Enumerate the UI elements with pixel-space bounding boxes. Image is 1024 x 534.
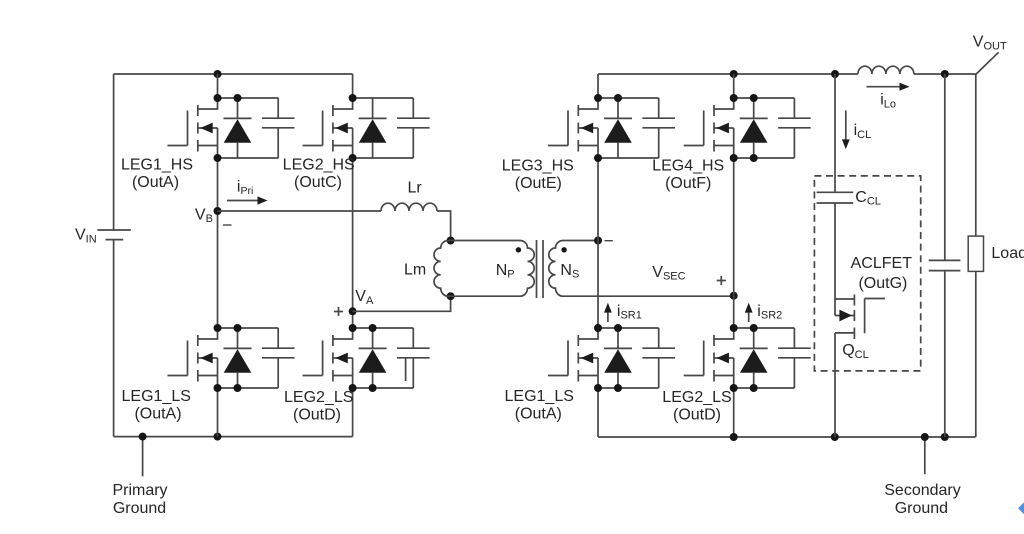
svg-text:LEG3_HS: LEG3_HS	[502, 157, 574, 174]
svg-text:Lr: Lr	[408, 180, 423, 197]
svg-text:LEG4_HS: LEG4_HS	[652, 157, 724, 174]
svg-text:Primary: Primary	[112, 482, 167, 499]
svg-text:(OutA): (OutA)	[132, 174, 179, 191]
svg-text:(OutD): (OutD)	[293, 407, 341, 424]
svg-text:LEG1_LS: LEG1_LS	[122, 388, 191, 405]
svg-text:VIN: VIN	[75, 227, 97, 246]
svg-text:NP: NP	[496, 262, 515, 281]
svg-text:iCL: iCL	[854, 122, 872, 141]
svg-text:LEG2_LS: LEG2_LS	[284, 389, 353, 406]
svg-text:NS: NS	[560, 262, 579, 281]
svg-text:iPri: iPri	[237, 178, 253, 197]
svg-text:(OutF): (OutF)	[665, 175, 711, 192]
svg-text:(OutD): (OutD)	[673, 407, 721, 424]
svg-text:ACLFET: ACLFET	[851, 255, 913, 272]
svg-text:(OutA): (OutA)	[515, 406, 562, 423]
svg-text:LEG2_LS: LEG2_LS	[662, 389, 731, 406]
svg-text:VB: VB	[195, 206, 213, 225]
svg-text:(OutC): (OutC)	[294, 174, 342, 191]
svg-text:Secondary: Secondary	[884, 482, 961, 499]
svg-text:(OutE): (OutE)	[515, 175, 562, 192]
svg-text:LEG1_HS: LEG1_HS	[121, 157, 193, 174]
svg-text:VOUT: VOUT	[973, 34, 1007, 53]
svg-text:(OutG): (OutG)	[858, 275, 907, 292]
svg-text:CCL: CCL	[855, 189, 881, 208]
svg-text:Ground: Ground	[895, 500, 948, 517]
svg-text:QCL: QCL	[842, 342, 869, 361]
svg-text:iLo: iLo	[880, 92, 896, 111]
svg-text:Ground: Ground	[113, 500, 166, 517]
svg-text:iSR1: iSR1	[617, 303, 642, 322]
svg-text:VSEC: VSEC	[652, 264, 685, 283]
svg-text:LEG1_LS: LEG1_LS	[505, 388, 574, 405]
svg-text:VA: VA	[355, 288, 374, 307]
svg-text:Lm: Lm	[404, 262, 426, 279]
svg-text:Load: Load	[991, 245, 1024, 262]
svg-text:iSR2: iSR2	[757, 303, 782, 322]
svg-text:(OutA): (OutA)	[134, 406, 181, 423]
svg-text:LEG2_HS: LEG2_HS	[283, 157, 355, 174]
